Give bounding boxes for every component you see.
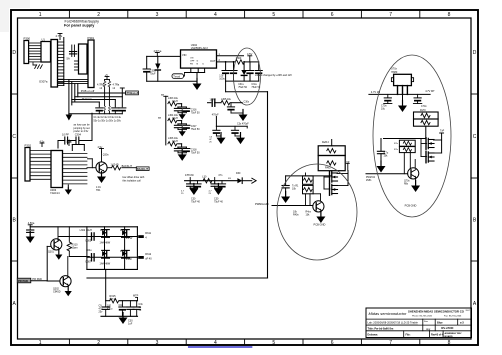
svg-text:PWM 1N: PWM 1N [366, 177, 376, 179]
svg-text:47n: 47n [218, 174, 223, 177]
resistor R315 [110, 299, 119, 303]
svg-text:ON: ON [190, 58, 194, 60]
node rail right [384, 138, 426, 140]
bus wires to P301 bottom [58, 79, 89, 81]
svg-text:P302: P302 [25, 144, 32, 148]
svg-text:8: 8 [448, 340, 451, 346]
title block [366, 308, 472, 338]
svg-text:4D: 4D [116, 163, 119, 166]
ground C401 [281, 192, 290, 204]
net flag PR-PAD [17, 278, 31, 283]
svg-text:TP: TP [158, 117, 162, 120]
series capacitor C304 [75, 137, 77, 144]
svg-text:C70x: C70x [421, 105, 427, 108]
svg-text:5A: 5A [67, 57, 70, 61]
svg-text:75uF 40: 75uF 40 [191, 201, 200, 204]
small resistor box R703 [399, 140, 415, 146]
output bottom rail [226, 80, 259, 82]
svg-text:prefer to 4.5v: prefer to 4.5v [74, 130, 89, 133]
svg-text:8: 8 [448, 12, 451, 18]
resistor R304 lower [103, 106, 105, 111]
svg-text:7: 7 [389, 12, 392, 18]
vertical bus [63, 38, 65, 86]
output capacitor C306 [225, 62, 227, 70]
svg-text:C945D: C945D [53, 291, 61, 294]
svg-text:Drdrawn:: Drdrawn: [368, 333, 379, 336]
resistor box R402 [318, 156, 345, 171]
resistor box R401 [331, 140, 333, 146]
svg-text:10pm: 10pm [72, 247, 78, 250]
IC U301 [41, 42, 51, 63]
svg-text:L302 10uH: L302 10uH [80, 229, 92, 232]
transistor Q403 [313, 201, 324, 212]
svg-text:Q70x: Q70x [404, 181, 410, 183]
cap C320 [121, 301, 123, 307]
resistor box R702 [414, 119, 439, 126]
svg-text:L30: L30 [202, 176, 207, 179]
svg-text:1N4148W: 1N4148W [100, 262, 111, 265]
svg-text:this isolation coil: this isolation coil [123, 179, 142, 182]
svg-text:50v 1u 50v 1u 50v 1u 50v: 50v 1u 50v 1u 50v 1u 50v [94, 120, 122, 123]
ground Q302 [65, 287, 72, 297]
resistor bar R311 [138, 235, 144, 238]
svg-text:OUT: OUT [210, 59, 216, 63]
cap C321 [129, 301, 131, 307]
svg-text:Midas semiconductor: Midas semiconductor [369, 311, 407, 316]
net flag BACKLIT [136, 167, 149, 171]
svg-text:3: 3 [156, 340, 159, 346]
svg-text:R311: R311 [145, 232, 151, 235]
svg-text:1N4148W: 1N4148W [100, 242, 111, 245]
svg-text:5: 5 [272, 12, 275, 18]
chassis ground [33, 65, 42, 69]
power tick above Q300 [100, 149, 104, 153]
svg-text:6: 6 [331, 12, 334, 18]
long vertical feed [267, 92, 269, 278]
mosfet Q401 [330, 171, 338, 183]
svg-text:C: C [473, 134, 477, 140]
svg-text:C304: C304 [75, 133, 82, 137]
row2 wire [87, 256, 137, 258]
transistor Q703 [408, 168, 419, 179]
transistor Q301 [57, 227, 59, 241]
pin wires U303 right [63, 153, 88, 155]
svg-text:R312: R312 [145, 253, 152, 256]
svg-text:Fax: 86-755-2346: Fax: 86-755-2346 [444, 316, 462, 318]
svg-text:75uF 50: 75uF 50 [191, 128, 200, 131]
svg-text:D: D [473, 50, 477, 56]
svg-text:SHENZHEN MIDAS SEMICONDUCTOR C: SHENZHEN MIDAS SEMICONDUCTOR CO [408, 310, 465, 314]
bottom long rail [87, 277, 268, 279]
svg-text:BOARD: BOARD [445, 335, 453, 338]
diode D305 [243, 62, 245, 70]
ground Q703 [411, 181, 420, 193]
series capacitor 10PF [64, 137, 66, 144]
ground C702 [377, 161, 386, 173]
svg-text:4: 4 [214, 12, 217, 18]
svg-text:Multisim: Multisim [82, 97, 93, 101]
mosfet Q702 [426, 151, 434, 163]
capacitor C318b [185, 146, 187, 149]
capacitor C323 [230, 103, 232, 107]
svg-text:PWMGxxIN: PWMGxxIN [255, 202, 269, 206]
diode D303 [102, 250, 110, 258]
svg-text:For panel supply: For panel supply [64, 24, 95, 28]
cap C314 [258, 62, 260, 70]
top rail [30, 226, 137, 228]
mosfet Q701 [426, 138, 434, 150]
svg-text:470u: 470u [107, 308, 113, 311]
svg-text:75uF 40: 75uF 40 [214, 201, 223, 204]
cap C700 [387, 94, 389, 97]
vertical drop wires [68, 80, 70, 115]
svg-text:1: 1 [39, 12, 42, 18]
legs [397, 86, 399, 95]
capacitor C316b [185, 106, 187, 109]
capacitor C305 [92, 233, 95, 240]
net wire PCB on off [78, 92, 126, 94]
decoupling caps C between G307 and P301 [71, 45, 73, 57]
bridge network frame [136, 227, 138, 270]
pull-up resistor R305 [108, 81, 111, 87]
wires U301 to G307 [50, 42, 53, 44]
cap C309 [249, 62, 251, 70]
power flag 4.5V b [67, 142, 71, 146]
sheet arrow down [66, 115, 73, 121]
svg-text:R40x: R40x [293, 214, 299, 217]
border zone ticks and coordinates [68, 10, 70, 18]
cap C701 [417, 94, 419, 97]
bottom return wire [147, 80, 197, 82]
signal wires to filter caps [75, 96, 123, 98]
svg-text:Title: Pw-bd-8a60 8m: Title: Pw-bd-8a60 8m [368, 326, 394, 330]
svg-text:470uF: 470uF [212, 113, 219, 116]
input cap C303 [146, 56, 148, 68]
cap C702 [380, 139, 382, 151]
ground Q403 [316, 212, 325, 224]
resistor box R701 [414, 112, 439, 119]
capacitor C307 [92, 254, 95, 261]
base resistor R306 [107, 167, 112, 169]
svg-text:4: 4 [214, 340, 217, 346]
resistor R310 [68, 227, 70, 241]
svg-text:Aug: Aug [425, 328, 431, 331]
svg-text:4.5v: 4.5v [40, 141, 45, 144]
svg-text:PCBonoff: PCBonoff [127, 91, 139, 95]
net flag PCB on off [126, 91, 139, 95]
svg-text:10 PF: 10 PF [62, 133, 69, 137]
svg-text:vol a is changed by +20% and 1: vol a is changed by +20% and 12V [255, 74, 292, 77]
svg-text:VIN: VIN [182, 53, 186, 57]
svg-text:Blue: Blue [437, 320, 443, 324]
svg-text:PR PAD: PR PAD [32, 277, 42, 281]
capacitor C318 [177, 146, 179, 149]
small resistor box R403 [303, 176, 314, 184]
diode D304 [122, 250, 130, 258]
input wire [147, 55, 181, 57]
small resistor box R704 [399, 147, 415, 153]
svg-text:3: 3 [156, 12, 159, 18]
svg-text:Q30x: Q30x [103, 154, 110, 157]
wire cap link [68, 140, 76, 142]
ground below U303 [67, 188, 69, 190]
svg-text:TR1: TR1 [96, 189, 101, 192]
capacitor C324 [215, 126, 217, 130]
cap C322 [136, 301, 138, 307]
capacitor C317b [185, 123, 187, 126]
rail [369, 93, 430, 95]
ground Q300 emitter [97, 172, 106, 184]
svg-text:47PC30: 47PC30 [185, 174, 194, 177]
capacitor C315 [27, 230, 34, 232]
capacitor C317 [177, 123, 179, 126]
svg-text:D304: D304 [120, 250, 126, 253]
svg-text:D: D [12, 50, 16, 56]
svg-text:G307a: G307a [39, 80, 48, 84]
filter capacitor C310 [96, 108, 103, 112]
zener D300 [157, 56, 159, 63]
svg-text:74HC14: 74HC14 [50, 191, 60, 195]
svg-text:C10: C10 [119, 304, 124, 307]
svg-text:4Pv-x/5000: 4Pv-x/5000 [441, 327, 454, 330]
output capacitor C308 [233, 62, 235, 70]
feed wire down [105, 269, 107, 300]
connector P301 [88, 40, 94, 88]
svg-text:75uF: 75uF [150, 73, 156, 76]
svg-text:2N51: 2N51 [366, 180, 372, 182]
svg-text:D301: D301 [100, 229, 106, 232]
transistor Q302 [47, 280, 59, 282]
wire to series cap C304 [91, 113, 93, 140]
capacitor C316 [177, 106, 179, 109]
ground lower network [122, 316, 124, 317]
ground cell1 [189, 184, 198, 196]
svg-text:C305: C305 [85, 240, 92, 243]
ground C323 [239, 110, 248, 122]
svg-text:C30x: C30x [244, 101, 250, 104]
IC U303 [51, 151, 63, 188]
svg-text:a-3: a-3 [460, 320, 464, 324]
IC G307 long box [51, 40, 58, 88]
svg-text:78M0: 78M0 [391, 71, 398, 74]
bottom rail [101, 315, 138, 317]
ground C315 [26, 232, 35, 244]
svg-text:1uF: 1uF [128, 323, 133, 326]
feedback flag [172, 74, 184, 79]
svg-text:D302: D302 [120, 229, 126, 232]
ground row [179, 127, 186, 137]
resistor R305 lower [108, 106, 110, 111]
svg-text:Rev#3 of 4: Rev#3 of 4 [431, 333, 444, 336]
open arrow out [252, 178, 256, 183]
wire to bridge [69, 256, 89, 258]
diode D302 [122, 230, 130, 238]
mosfet Q402 [330, 184, 338, 196]
wire P300 pin to chassis ground [32, 62, 34, 65]
wires P302 to U303 [30, 150, 51, 152]
filter capacitor C313 [119, 108, 126, 112]
svg-text:75uF 50: 75uF 50 [238, 86, 247, 89]
svg-text:C307: C307 [85, 260, 92, 263]
svg-text:PCB GND: PCB GND [405, 204, 417, 208]
svg-text:4.1 W: 4.1 W [126, 237, 133, 240]
svg-text:1: 1 [39, 340, 42, 346]
diode D301 [102, 230, 110, 238]
svg-text:Q301: Q301 [48, 251, 55, 254]
wires P300 to U301 [29, 42, 41, 44]
svg-text:6: 6 [331, 340, 334, 346]
svg-text:4.1W: 4.1W [126, 258, 132, 261]
svg-text:ReB 2: ReB 2 [322, 141, 330, 144]
svg-text:7: 7 [389, 340, 392, 346]
capacitor C325 [234, 126, 236, 130]
node rail [286, 175, 332, 177]
blue artifact line [189, 346, 252, 348]
svg-text:PCB on off: PCB on off [81, 89, 95, 93]
svg-text:P301: P301 [88, 36, 95, 40]
svg-text:100u: 100u [219, 78, 225, 81]
highlight ellipse mid [277, 164, 357, 260]
resistor bar R312 [138, 256, 144, 259]
svg-text:TxP: TxP [440, 130, 445, 133]
ground Q301 [55, 250, 62, 260]
highlight ellipse output [234, 48, 261, 105]
svg-text:U1: U1 [42, 38, 46, 42]
svg-text:D30: D30 [236, 172, 241, 175]
svg-text:75uF 50: 75uF 50 [191, 151, 200, 154]
transistor Q300 [96, 162, 107, 173]
svg-text:uF 40: uF 40 [145, 258, 152, 261]
svg-text:File:: File: [406, 333, 411, 336]
svg-text:5: 5 [272, 340, 275, 346]
svg-text:G: G [197, 61, 199, 63]
svg-text:BACKLIT: BACKLIT [137, 168, 148, 171]
small resistor box R404 [303, 185, 314, 193]
pin wires U302/P301 [87, 45, 88, 47]
svg-text:4.5v: 4.5v [67, 140, 72, 143]
svg-text:BACKLIT: BACKLIT [122, 165, 133, 168]
svg-text:2: 2 [97, 12, 100, 18]
svg-text:ASSEMBLY REV: ASSEMBLY REV [445, 332, 463, 335]
wires into U303 top [71, 145, 73, 151]
row1 wire [59, 236, 137, 238]
highlight ellipse right [373, 55, 451, 217]
svg-text:2: 2 [97, 340, 100, 346]
svg-text:Rx70: Rx70 [420, 109, 426, 112]
svg-text:Txxxd: Txxxd [173, 75, 180, 79]
svg-text:PR PAD: PR PAD [18, 279, 28, 283]
svg-text:C: C [12, 134, 16, 140]
connector P302 [25, 148, 30, 182]
pull-up resistor R304 [104, 80, 106, 81]
output rail cells [185, 180, 237, 182]
svg-text:0.7 Ω: 0.7 Ω [110, 298, 116, 301]
ground mid leg [402, 94, 404, 105]
power flag 4.5V [40, 143, 44, 147]
output pin wires [217, 55, 244, 57]
ground below IC [196, 73, 198, 84]
svg-text:4.5v: 4.5v [98, 146, 103, 149]
svg-text:C3x 470uF: C3x 470uF [237, 123, 249, 126]
svg-text:PCB GND: PCB GND [314, 223, 326, 227]
svg-text:100u: 100u [86, 249, 92, 252]
left cap C319 [105, 301, 107, 307]
IC U302 [79, 44, 88, 74]
ground cell2 [214, 184, 223, 196]
svg-text:4.7Vs: 4.7Vs [56, 34, 63, 38]
pin stubs G307 right [58, 41, 64, 43]
svg-text:OFF: OFF [190, 61, 195, 63]
ground row [178, 149, 187, 161]
svg-text:75uF 50: 75uF 50 [191, 111, 200, 114]
cap C401 [285, 176, 287, 185]
common rail [69, 113, 122, 115]
ground row [179, 110, 186, 120]
filter capacitor C312 [112, 108, 119, 112]
IC bottom pins [190, 68, 192, 72]
svg-text:Phone: 86-755-2345: Phone: 86-755-2345 [412, 316, 433, 318]
svg-text:4.7V MT: 4.7V MT [425, 90, 435, 93]
svg-text:10u: 10u [381, 108, 386, 111]
svg-text:Lab: 2005/06/08-2005/07/18 LLD: Lab: 2005/06/08-2005/07/18 LLD-25 Triabl… [368, 321, 419, 325]
